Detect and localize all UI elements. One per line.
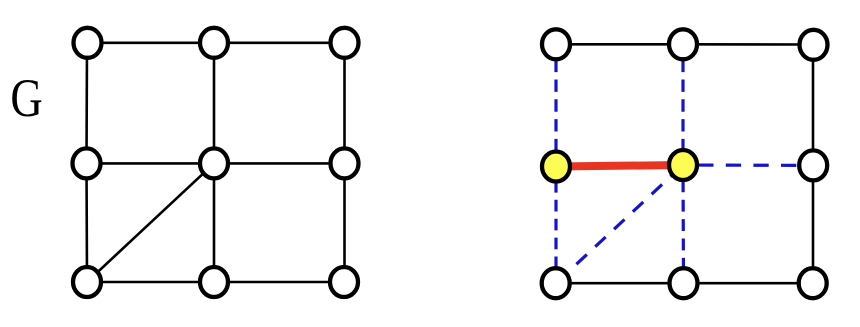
wire L left vertical ML-BL [85,163,88,282]
wire R mid horizontal dashed MC-MR [683,163,813,167]
wire L center vertical TM-MC [213,43,216,164]
wire R bottom horizontal BM-BR [684,282,814,285]
wire R right vertical TR-MR [812,45,815,166]
node R-BR [799,268,827,298]
node L-BM [200,267,228,297]
node R-MR [799,150,827,180]
wire L top horizontal TM-TR [214,41,345,44]
wire L bottom horizontal BM-BR [214,281,345,284]
node L-MR [331,148,359,178]
node L-MC [200,148,228,178]
matched edge red ML-MC [556,165,683,167]
node R-MC yellow [669,150,697,180]
node L-TL [74,28,102,58]
node L-TR [331,28,359,58]
wire R bottom horizontal BL-BM [556,282,684,285]
right graph nodes [542,29,828,298]
wire L mid horizontal MC-MR [214,162,345,165]
node R-TL [542,29,570,59]
wire R left vertical dashed ML-BL [554,167,557,284]
node R-TM [669,29,697,59]
node R-BL [542,268,570,298]
wire R diagonal dashed BL-MC [556,165,683,283]
left graph edges [87,43,345,282]
wire L top horizontal TL-TM [87,41,214,44]
wire R top horizontal TL-TM [556,43,683,46]
wire L bottom horizontal BL-BM [87,281,214,284]
wire R left vertical dashed TL-ML [554,44,557,166]
wire R top horizontal TM-TR [683,43,813,46]
wire L center vertical MC-BM [213,163,216,282]
wire R right vertical MR-BR [812,165,815,283]
wire L right vertical TR-MR [343,43,346,164]
wire L left vertical TL-ML [85,43,88,164]
node L-BR [330,267,358,297]
right graph black edges [556,44,813,283]
right graph blue dashed edges [556,44,813,283]
node L-TM [200,28,228,58]
svg-text:G: G [10,68,42,128]
node R-TR [800,30,828,60]
node L-ML [73,148,101,178]
wire L mid horizontal ML-MC [87,162,215,165]
wire L right vertical MR-BR [343,163,346,282]
wire R center vertical dashed MC-BM [681,165,685,283]
wire R center vertical dashed TM-MC [681,44,684,165]
node R-BM [670,268,698,298]
node R-ML yellow [542,152,570,182]
node L-BL [73,267,101,297]
wire L diagonal BL-MC [87,163,214,282]
left graph nodes [73,28,359,297]
